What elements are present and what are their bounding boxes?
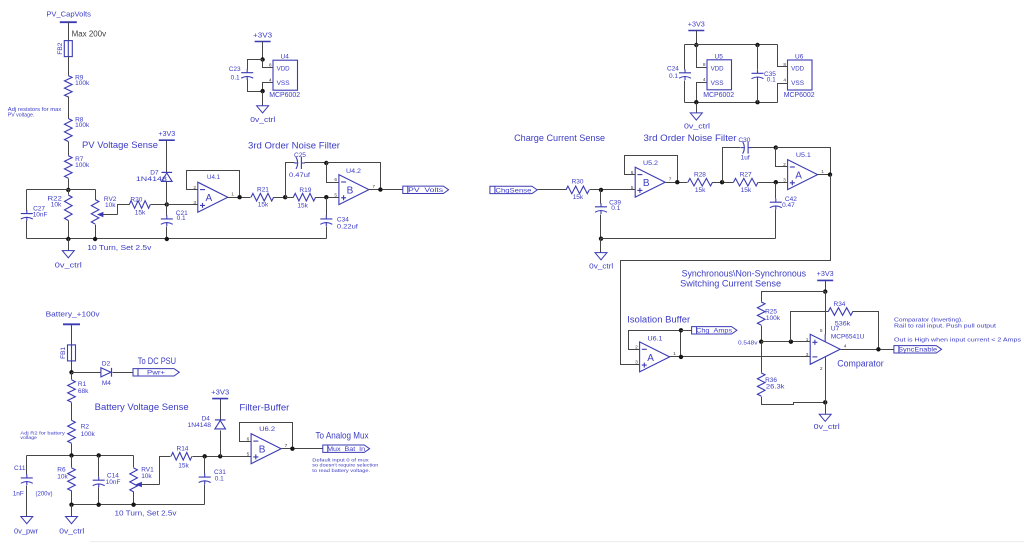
wire R30 to U5.2 + <box>590 189 636 191</box>
R7 ref <box>75 156 84 163</box>
wire RV1 top lead <box>133 456 135 468</box>
C35 value 0.1 <box>767 77 776 84</box>
U5.1 pin numbers 2 3 1 <box>783 162 824 183</box>
svg-text:R20: R20 <box>130 196 142 203</box>
resistor R19 <box>293 193 315 201</box>
wire FB1 to node <box>71 361 73 373</box>
netport PV_Volts <box>403 186 449 194</box>
wire feedback node to output <box>327 163 381 190</box>
wire C42 to gnd rail <box>775 210 777 239</box>
note mux default line2 <box>312 463 378 469</box>
wire U4.1 output to R21 <box>228 197 251 199</box>
svg-text:0.47: 0.47 <box>782 202 795 209</box>
wire C30 to feedback node <box>752 147 776 149</box>
wire C35 top lead <box>757 45 759 70</box>
C31 value 0.1 <box>215 476 224 483</box>
R9 ref <box>75 75 84 82</box>
ground label 0v_ctrl comp <box>814 424 841 431</box>
wire U5.1 out link <box>818 174 831 176</box>
junction D4 node <box>218 454 222 458</box>
R19 value 15k <box>297 203 308 210</box>
R22 value 10k <box>51 202 62 209</box>
wire +3V3 to U5 rail <box>696 31 698 45</box>
C11 ref <box>14 465 26 472</box>
svg-text:4: 4 <box>844 344 847 350</box>
IC U4 MCP6002 power <box>269 54 300 99</box>
junction bottom rail at RV1 <box>131 503 135 507</box>
junction C35 bottom <box>755 100 759 104</box>
svg-text:U4.1: U4.1 <box>207 174 220 181</box>
svg-text:0.22uf: 0.22uf <box>337 223 358 230</box>
svg-text:5: 5 <box>820 328 823 334</box>
ground label 0v_ctrl U4 <box>250 117 276 124</box>
R28 ref <box>694 171 706 178</box>
C39 ref <box>609 199 621 206</box>
svg-text:26.3k: 26.3k <box>766 384 785 391</box>
svg-text:(200v): (200v) <box>36 491 53 498</box>
resistor R22 <box>65 195 73 221</box>
svg-text:10nF: 10nF <box>33 212 48 219</box>
wire feedback node to U4.2 - <box>327 163 339 183</box>
note rail to rail <box>894 324 997 330</box>
capacitor C21 <box>161 215 173 226</box>
svg-text:Chg_Amps: Chg_Amps <box>696 328 733 335</box>
power +3V3 U5 U6 <box>688 21 705 30</box>
note adj resistors line1 <box>8 107 62 113</box>
svg-text:0.548v: 0.548v <box>738 341 758 347</box>
svg-text:Battery Voltage Sense: Battery Voltage Sense <box>95 402 189 412</box>
C14 value 10nF <box>106 479 121 486</box>
svg-text:R27: R27 <box>740 171 752 178</box>
U7 part MCP6541U <box>831 333 865 340</box>
junction R34 tap <box>789 340 793 344</box>
svg-text:6: 6 <box>334 177 337 183</box>
wire U6 VSS jog <box>778 84 788 103</box>
node label 0.548v <box>738 341 758 347</box>
wire to Chg_Amps port <box>681 330 692 332</box>
svg-text:0v_ctrl: 0v_ctrl <box>59 529 85 536</box>
wire R6 top lead <box>71 456 73 468</box>
junction battery node <box>69 370 73 374</box>
title 3rd Order Noise Filter left <box>248 140 340 150</box>
svg-text:100k: 100k <box>75 162 90 169</box>
R6 ref <box>57 466 66 473</box>
wire C31 to bottom rail <box>204 485 206 505</box>
U4 power pin numbers 8 4 <box>269 63 272 84</box>
svg-text:Rail to rail input. Push pull: Rail to rail input. Push pull output <box>894 324 997 330</box>
wire mid node to R19 <box>286 197 294 199</box>
svg-text:+3V3: +3V3 <box>817 271 834 278</box>
D4 ref <box>202 415 211 422</box>
junction C25 feedback node <box>324 161 328 165</box>
frame edge line <box>90 541 1024 543</box>
resistor R28 <box>688 178 713 186</box>
junction U5.1 + node <box>774 180 778 184</box>
title Battery Voltage Sense <box>95 402 189 412</box>
wire C39 to gnd rail <box>600 215 602 239</box>
power +3V3 above D4 <box>211 389 229 398</box>
svg-text:10 Turn, Set 2.5v: 10 Turn, Set 2.5v <box>87 245 152 252</box>
svg-text:C30: C30 <box>738 137 750 144</box>
ground label 0v_ctrl battery <box>59 529 85 536</box>
capacitor C42 <box>770 199 782 210</box>
svg-text:to read battery voltage.: to read battery voltage. <box>312 468 370 474</box>
svg-text:0.1: 0.1 <box>767 77 776 84</box>
op-amp U6.2 <box>251 434 281 464</box>
svg-text:3: 3 <box>193 200 196 206</box>
op-amp U4.1 <box>198 182 228 212</box>
note mux default line3 <box>312 468 370 474</box>
capacitor C27 <box>21 210 33 221</box>
svg-text:R14: R14 <box>177 445 189 452</box>
wire gnd stem battery <box>71 505 73 517</box>
svg-text:U5.1: U5.1 <box>796 152 811 159</box>
svg-text:100k: 100k <box>75 80 90 87</box>
wire U4.2 output <box>369 189 403 191</box>
svg-text:0v_ctrl: 0v_ctrl <box>814 424 841 431</box>
svg-text:1: 1 <box>821 169 824 175</box>
svg-text:Mux_Bat_In: Mux_Bat_In <box>327 446 365 453</box>
junction rail at R22 <box>66 237 70 241</box>
resistor R9 <box>65 76 73 97</box>
ground 0v_ctrl comparator <box>819 414 831 421</box>
svg-text:MCP6002: MCP6002 <box>269 92 300 99</box>
svg-text:+3V3: +3V3 <box>158 131 175 138</box>
C23 value 0.1 <box>231 74 240 81</box>
svg-text:C24: C24 <box>667 66 679 73</box>
wire D4 to +3V3 <box>220 399 222 420</box>
svg-text:4: 4 <box>269 77 272 83</box>
wire U4 node to C23 <box>248 60 263 70</box>
svg-text:4: 4 <box>783 78 786 84</box>
wire D4 to node <box>220 431 222 457</box>
U6.1 pin numbers 2 3 1 <box>635 345 676 366</box>
diode D4 1N4148 <box>215 420 226 429</box>
net Battery terminal bar <box>63 323 80 325</box>
C30 ref <box>738 137 750 144</box>
title Filter-Buffer <box>239 402 289 412</box>
title Synchronous Non-Synchronous <box>682 268 807 278</box>
svg-text:3rd Order Noise Filter: 3rd Order Noise Filter <box>248 140 340 150</box>
R25 value 100k <box>766 315 781 322</box>
C34 value 0.22uf <box>337 223 358 230</box>
IC U5 MCP6002 power <box>703 53 734 99</box>
wire comp vss down <box>825 357 827 415</box>
U6 power pin numbers 8 4 <box>783 62 786 84</box>
wire PV_CapVolts to FB2 <box>68 23 70 41</box>
C34 ref <box>337 216 349 223</box>
power +3V3 U4 <box>253 32 272 41</box>
wire node to R1 <box>71 373 73 380</box>
svg-text:0v_pwr: 0v_pwr <box>14 529 39 536</box>
RV2 ref <box>104 196 117 203</box>
svg-text:7: 7 <box>669 176 672 182</box>
svg-text:2: 2 <box>783 162 786 168</box>
svg-text:10k: 10k <box>141 473 152 480</box>
U4.2 pin numbers 6 5 7 <box>334 177 375 198</box>
R34 value 536k <box>835 320 851 327</box>
resistor R30 <box>566 186 589 194</box>
junction PV divider node <box>66 188 70 192</box>
wire R9 to R8 <box>68 97 70 119</box>
note 10 Turn Set 2.5v battery <box>115 511 178 518</box>
R27 ref <box>740 171 752 178</box>
svg-text:U6.1: U6.1 <box>648 336 663 343</box>
svg-text:15k: 15k <box>178 462 189 469</box>
junction Chg_Amps node <box>679 328 683 332</box>
resistor R2 <box>68 420 76 443</box>
svg-text:15k: 15k <box>695 187 706 194</box>
svg-text:B: B <box>259 445 266 456</box>
wire U5 ground stem <box>696 103 698 113</box>
junction U6.2 output <box>290 447 294 451</box>
capacitor C30 <box>741 142 752 154</box>
comparator U7 MCP6541U <box>810 334 840 364</box>
D7 ref <box>150 170 159 177</box>
wire battery bottom rail <box>72 504 205 506</box>
wire bottom rail U5 U6 <box>685 102 778 104</box>
title Switching Current Sense <box>680 279 781 289</box>
capacitor C24 <box>679 69 691 80</box>
svg-text:R2: R2 <box>81 424 90 431</box>
svg-text:15k: 15k <box>741 187 752 194</box>
svg-text:0.1: 0.1 <box>611 205 620 212</box>
svg-text:C34: C34 <box>337 216 349 223</box>
junction 0.548v node <box>759 340 763 344</box>
wire U5 VDD stub <box>697 45 707 68</box>
C24 value 0.1 <box>669 73 678 80</box>
resistor R34 <box>828 308 853 316</box>
U5.2 pin numbers 6 5 7 <box>631 170 672 191</box>
junction rail at RV2 <box>93 237 97 241</box>
wire bottom rail PV section <box>27 238 327 240</box>
junction U4.2 output node <box>378 187 382 191</box>
ground label 0v_pwr <box>14 529 39 536</box>
junction filter mid node <box>283 195 287 199</box>
wire ChgSense to R30 <box>538 189 567 191</box>
ground 0v_ctrl chg sense <box>595 253 607 260</box>
svg-text:MCP6541U: MCP6541U <box>831 333 865 340</box>
svg-text:1N4148: 1N4148 <box>136 176 168 183</box>
svg-text:Default input 0 of mux: Default input 0 of mux <box>312 457 369 463</box>
svg-text:To DC PSU: To DC PSU <box>138 356 176 366</box>
svg-text:10 Turn, Set 2.5v: 10 Turn, Set 2.5v <box>115 511 178 518</box>
R2 ref <box>81 424 90 431</box>
op-amp U4.2 <box>339 175 369 205</box>
R6 value 10k <box>57 473 68 480</box>
resistor R20 <box>129 201 150 209</box>
wire C25 branch up <box>286 163 295 198</box>
resistor R1 <box>68 380 76 403</box>
IC U6 MCP6002 power <box>784 54 815 100</box>
svg-text:8: 8 <box>703 62 706 68</box>
junction U5.2 output <box>675 180 679 184</box>
R9 value 100k <box>75 80 90 87</box>
resistor R27 <box>734 178 759 186</box>
op-amp U5.1 <box>788 160 818 190</box>
svg-text:U6: U6 <box>795 54 804 61</box>
svg-text:+3V3: +3V3 <box>253 32 272 39</box>
note To Analog Mux <box>316 431 369 441</box>
svg-text:U7: U7 <box>831 325 840 332</box>
U5.2 ref <box>643 160 658 167</box>
svg-text:0.1: 0.1 <box>177 215 186 222</box>
svg-text:VSS: VSS <box>791 81 804 87</box>
net PV_CapVolts terminal bar <box>60 21 77 23</box>
R25 ref <box>765 309 777 316</box>
svg-text:PV voltage.: PV voltage. <box>8 113 35 119</box>
resistor R25 <box>757 302 765 325</box>
junction C30 node <box>720 180 724 184</box>
D2 value M4 <box>102 380 111 387</box>
R36 value 26.3k <box>766 384 785 391</box>
C21 value 0.1 <box>177 215 186 222</box>
U7 pin numbers 1 3 4 5 2 <box>806 328 847 372</box>
wire U6.2 output <box>282 448 323 450</box>
ground 0v_ctrl U4 <box>257 106 269 113</box>
svg-text:FB1: FB1 <box>60 347 67 359</box>
svg-text:5: 5 <box>334 193 337 199</box>
U6.2 ref <box>259 426 275 433</box>
R14 ref <box>177 445 189 452</box>
wire C11 branch top <box>26 456 28 475</box>
note To DC PSU <box>138 356 176 366</box>
R34 ref <box>834 301 846 308</box>
svg-text:U5.2: U5.2 <box>643 160 658 167</box>
wire U5 VSS stub <box>697 83 707 103</box>
junction U5.1 feedback node <box>774 145 778 149</box>
wire RV1 wiper to R14 <box>160 457 171 485</box>
junction U4.1 output node <box>237 195 241 199</box>
note adj R2 line2 <box>20 435 37 441</box>
R22 ref <box>48 196 63 203</box>
svg-text:C25: C25 <box>294 152 306 159</box>
wire divider to comp + <box>762 341 811 343</box>
svg-text:PV Voltage Sense: PV Voltage Sense <box>82 140 158 150</box>
C35 ref <box>764 71 776 78</box>
wire R2 to top rail <box>71 444 73 456</box>
resistor R21 <box>251 193 274 201</box>
svg-text:B: B <box>347 186 354 197</box>
wire U5.2 feedback <box>625 156 678 183</box>
svg-text:Charge Current Sense: Charge Current Sense <box>514 133 605 143</box>
potentiometer RV2 wiper arrow <box>97 212 118 218</box>
svg-text:0.1: 0.1 <box>669 73 678 80</box>
wire +3V3 to U4 node <box>262 42 264 60</box>
svg-text:Out is High when input current: Out is High when input current < 2 Amps <box>894 338 1021 344</box>
svg-text:R34: R34 <box>834 301 846 308</box>
svg-text:PV_CapVolts: PV_CapVolts <box>46 11 91 18</box>
svg-text:100k: 100k <box>75 122 90 129</box>
U4.1 pin numbers 2 3 1 <box>193 185 234 206</box>
R8 ref <box>75 117 84 124</box>
wire R21 to mid node <box>274 197 286 199</box>
note 10 Turn Set 2.5v PV <box>87 245 152 252</box>
note out is high <box>894 338 1021 344</box>
junction U4 VDD node <box>260 57 264 61</box>
wire U4 ground stem <box>262 92 264 106</box>
wire ground stem PV rail <box>68 239 70 251</box>
junction rail at C21 <box>165 237 169 241</box>
junction op-amp input node <box>165 202 169 206</box>
svg-text:0.47uf: 0.47uf <box>289 172 310 179</box>
svg-text:100k: 100k <box>766 315 781 322</box>
svg-text:1nF: 1nF <box>13 491 24 498</box>
R2 value 100k <box>81 431 96 438</box>
wire U6.2 feedback <box>240 423 293 449</box>
R1 ref <box>78 381 87 388</box>
wire Battery to FB1 <box>71 325 73 345</box>
wire R25 to divider node <box>761 326 763 342</box>
svg-text:ChgSense: ChgSense <box>495 187 531 194</box>
R7 value 100k <box>75 162 90 169</box>
wire C25 to feedback node <box>305 162 327 164</box>
svg-text:8: 8 <box>269 63 272 69</box>
wire R36 to comp gnd <box>762 397 826 405</box>
C25 ref <box>294 152 306 159</box>
svg-text:3rd Order Noise Filter: 3rd Order Noise Filter <box>644 133 737 143</box>
junction U5.1 output <box>828 172 832 176</box>
wire C35 bottom lead <box>757 81 759 103</box>
wire C14 branch bottom <box>98 488 100 505</box>
wire U6.1 out to comparator <box>670 356 811 358</box>
resistor R14 <box>171 453 192 461</box>
junction gnd rail at C39 <box>599 237 603 241</box>
wire top rail U5 U6 <box>685 44 778 46</box>
svg-text:10k: 10k <box>57 473 68 480</box>
wire R6 to bottom rail <box>71 491 73 505</box>
svg-text:Filter-Buffer: Filter-Buffer <box>239 402 289 412</box>
C23 ref <box>229 66 241 73</box>
netport Mux_Bat_In <box>323 445 370 453</box>
svg-text:A: A <box>647 353 654 364</box>
svg-text:0v_ctrl: 0v_ctrl <box>250 117 276 124</box>
C27 ref <box>33 205 45 212</box>
U5 power pin numbers 8 4 <box>703 62 706 83</box>
title Isolation Buffer <box>627 315 690 325</box>
svg-text:Battery_+100v: Battery_+100v <box>46 311 101 318</box>
svg-text:1N4148: 1N4148 <box>188 422 212 429</box>
capacitor C11 <box>21 474 33 485</box>
wire U4.1 feedback <box>187 171 240 198</box>
svg-text:SyncEnable: SyncEnable <box>898 347 937 354</box>
ferrite bead FB2 <box>57 41 73 57</box>
diode D7 1N4148 <box>162 172 173 181</box>
C30 value 1uf <box>741 154 750 161</box>
R21 value 15k <box>258 202 269 209</box>
wire C24 branch top <box>684 45 686 70</box>
svg-text:A: A <box>795 171 802 182</box>
svg-text:68k: 68k <box>78 388 89 395</box>
wire U6 VDD jog <box>778 45 788 67</box>
capacitor C39 <box>595 203 607 214</box>
svg-text:2: 2 <box>820 366 823 372</box>
junction U5 rail top <box>694 43 698 47</box>
ground label 0v_ctrl U5 <box>684 123 711 130</box>
svg-text:M4: M4 <box>102 380 111 387</box>
junction comp gnd node <box>823 400 827 404</box>
junction comp output node <box>876 347 880 351</box>
R30 ref <box>572 178 584 185</box>
wire FB2 to R9 <box>68 57 70 76</box>
svg-text:5: 5 <box>631 185 634 191</box>
wire C24 branch bottom <box>684 81 686 103</box>
svg-text:10nF: 10nF <box>106 479 121 486</box>
svg-text:100k: 100k <box>81 431 96 438</box>
net label PV_CapVolts <box>46 11 91 18</box>
svg-text:Pwr+: Pwr+ <box>147 370 165 377</box>
label Comparator <box>837 358 883 368</box>
